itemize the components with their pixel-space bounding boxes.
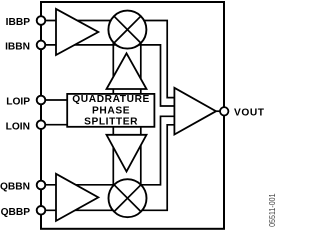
- svg-text:LOIN: LOIN: [6, 121, 30, 132]
- pin IBBN: [37, 41, 46, 50]
- pin QBBN: [37, 181, 46, 190]
- wire LO left line to Q mixer: [112, 127, 114, 192]
- svg-text:QUADRATURE: QUADRATURE: [72, 94, 150, 105]
- svg-text:SPLITTER: SPLITTER: [84, 116, 138, 127]
- wire LOIN stub: [45, 124, 67, 126]
- quadrature phase splitter box: [67, 94, 154, 127]
- wire LO left line to I mixer: [112, 36, 114, 94]
- op-amp Q input buffer: [56, 174, 98, 221]
- op-amp I input buffer: [56, 9, 98, 55]
- svg-text:PHASE: PHASE: [92, 105, 130, 116]
- wire I- rail IBBN to summing amp: [45, 45, 175, 106]
- svg-text:QBBP: QBBP: [1, 207, 31, 218]
- wire LOIP stub: [45, 99, 67, 101]
- pin LOIP: [37, 96, 46, 105]
- svg-text:IBBN: IBBN: [5, 42, 30, 53]
- wire I+ rail IBBP to summing amp: [45, 21, 175, 98]
- wire Q+ rail QBBN to summing amp: [45, 116, 175, 185]
- pin IBBP: [37, 16, 46, 25]
- svg-text:VOUT: VOUT: [234, 108, 265, 119]
- wire Q- rail QBBP to summing amp: [45, 125, 175, 211]
- svg-text:IBBP: IBBP: [6, 17, 31, 28]
- pin LOIN: [37, 120, 46, 129]
- wire LO right line to I mixer: [140, 36, 142, 94]
- mixer Q (circle with X): [109, 179, 147, 217]
- op-amp LO buffer Q (points down): [107, 135, 147, 172]
- wire LO right line to Q mixer: [140, 127, 142, 192]
- svg-text:QBBN: QBBN: [0, 182, 30, 193]
- chip outline box: [41, 2, 224, 229]
- mixer I (circle with X): [108, 11, 146, 49]
- svg-text:LOIP: LOIP: [6, 97, 30, 108]
- op-amp LO buffer I (points up): [107, 53, 147, 89]
- svg-text:05511-001: 05511-001: [268, 193, 277, 227]
- summing op-amp output stage: [174, 88, 216, 135]
- wire summing amp output to VOUT: [213, 110, 224, 112]
- pin QBBP: [37, 206, 46, 215]
- pin VOUT: [220, 107, 228, 115]
